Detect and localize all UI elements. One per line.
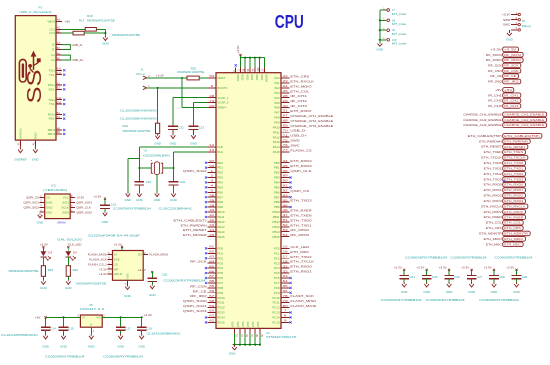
pin U1 VSS/25 bottom bbox=[256, 321, 263, 337]
pin U4 WP/3 net +3.3V bbox=[99, 266, 119, 272]
svg-text:0603WAF1002T5E: 0603WAF1002T5E bbox=[123, 129, 151, 133]
wire +5V to U5 bbox=[46, 316, 81, 318]
svg-text:PB9: PB9 bbox=[274, 205, 280, 209]
svg-text:35: 35 bbox=[283, 164, 289, 168]
svg-text:CC0603KRX7R9BB104: CC0603KRX7R9BB104 bbox=[113, 207, 151, 211]
svg-text:SIO0: SIO0 bbox=[62, 210, 69, 214]
pin U1 PD2/83 no-connect bbox=[205, 254, 224, 260]
svg-text:+3.3V: +3.3V bbox=[506, 266, 514, 270]
mount hole J8 bbox=[380, 18, 407, 27]
svg-text:PA11: PA11 bbox=[273, 130, 280, 134]
pin P1 D+/A6 net USB_D+ bbox=[51, 51, 62, 57]
svg-text:13: 13 bbox=[209, 148, 215, 152]
svg-text:ETH_RXD3: ETH_RXD3 bbox=[504, 199, 523, 203]
junction C15 node bbox=[62, 316, 64, 318]
svg-text:GND: GND bbox=[170, 142, 178, 146]
wire D4 to R16 bbox=[67, 257, 69, 266]
wire C29 to gnd bbox=[516, 279, 518, 283]
svg-text:ETH_PWRDWN: ETH_PWRDWN bbox=[504, 139, 528, 143]
svg-text:ETH_RXD1: ETH_RXD1 bbox=[504, 188, 523, 192]
pin IC2 CS/1 net QSPI_CS bbox=[26, 194, 50, 200]
svg-text:ETH_CRS: ETH_CRS bbox=[486, 226, 502, 230]
svg-text:SHIELD: SHIELD bbox=[19, 129, 23, 139]
svg-text:C18: C18 bbox=[146, 180, 152, 184]
pin U1 PA8/67 net CHARGE_CH1_ENABLE bbox=[274, 114, 333, 120]
svg-text:+3.3V: +3.3V bbox=[394, 266, 402, 270]
pin U1 VSS/49 bottom bbox=[241, 321, 248, 337]
svg-text:VDD: VDD bbox=[260, 74, 264, 80]
svg-text:PC10: PC10 bbox=[272, 296, 280, 300]
junction +3.3V/NRST node bbox=[181, 77, 183, 79]
pin U1 PA13/72 net SWD bbox=[273, 138, 301, 144]
svg-text:IR_CH1: IR_CH1 bbox=[488, 93, 502, 97]
svg-text:R16: R16 bbox=[73, 268, 79, 272]
mount hole J10 bbox=[380, 37, 407, 46]
wire VSS drop bbox=[249, 334, 251, 345]
svg-text:IR_CH3: IR_CH3 bbox=[290, 104, 307, 108]
net flag ETH_CABLES(T5P) bbox=[468, 134, 542, 139]
svg-text:RF_CE: RF_CE bbox=[490, 74, 501, 78]
pin P1 D-/B7 bbox=[52, 46, 62, 52]
pin P1 SHIELD bottom bbox=[17, 129, 22, 146]
ground under C17 bbox=[118, 334, 123, 339]
net flag ETH_COL bbox=[486, 220, 523, 225]
svg-text:(YE6U04D): (YE6U04D) bbox=[43, 188, 67, 192]
svg-text:SIO1: SIO1 bbox=[46, 201, 53, 205]
svg-text:GND: GND bbox=[42, 344, 50, 348]
wire C17 to gnd bbox=[120, 330, 122, 334]
pin U1 PE1/99 no-connect bbox=[205, 164, 223, 170]
svg-text:TX1+: TX1+ bbox=[48, 68, 55, 72]
wire C27 drop bbox=[471, 270, 473, 276]
svg-text:ETH_TXD0: ETH_TXD0 bbox=[504, 161, 523, 165]
svg-text:28: 28 bbox=[209, 203, 215, 207]
svg-text:CHARGE_CH3_ENABLE: CHARGE_CH3_ENABLE bbox=[504, 123, 544, 127]
pin U1 PC1/16 net ETH_MDC bbox=[274, 250, 310, 256]
svg-text:VSS: VSS bbox=[231, 321, 235, 327]
svg-text:GAL-30L2G0: GAL-30L2G0 bbox=[57, 238, 82, 242]
net flag ETH_MDC bbox=[486, 242, 523, 247]
svg-text:76: 76 bbox=[283, 143, 289, 147]
svg-text:VSS: VSS bbox=[251, 321, 255, 327]
pin U4 HOLD/7 net +3.3V bbox=[99, 270, 122, 276]
svg-text:PB4: PB4 bbox=[274, 181, 280, 185]
pin U1 PE3/2 no-connect bbox=[205, 174, 223, 180]
wire D- pair loop bbox=[62, 45, 70, 50]
svg-text:SWD: SWD bbox=[503, 18, 511, 22]
svg-text:GND: GND bbox=[149, 293, 157, 297]
pin U1 PC0/15 net CLK_LED bbox=[274, 245, 310, 251]
svg-text:CL10A205KA6NNNC: CL10A205KA6NNNC bbox=[120, 109, 158, 113]
wire C26 to gnd bbox=[448, 279, 450, 283]
wire R16 to gnd bbox=[67, 276, 69, 280]
svg-text:23: 23 bbox=[283, 79, 289, 83]
wire crystal right lead bbox=[163, 167, 174, 169]
svg-text:+3.3V: +3.3V bbox=[138, 268, 147, 272]
svg-text:RF_IRQ: RF_IRQ bbox=[190, 294, 207, 298]
svg-text:15: 15 bbox=[283, 245, 289, 249]
svg-text:87: 87 bbox=[209, 274, 215, 278]
svg-text:66: 66 bbox=[283, 289, 289, 293]
ground case GND bbox=[126, 193, 131, 197]
svg-text:ETH_RXDV: ETH_RXDV bbox=[484, 210, 502, 214]
svg-text:PC7: PC7 bbox=[274, 281, 280, 285]
junction mount hole rail bbox=[379, 19, 381, 21]
svg-text:70: 70 bbox=[283, 128, 289, 132]
pin U1 PA4/28 net IR_CH1 bbox=[274, 94, 307, 100]
svg-text:PE7: PE7 bbox=[217, 195, 223, 199]
svg-text:QSPI_SIO2: QSPI_SIO2 bbox=[183, 169, 207, 173]
pin U1 NRST/94 bbox=[207, 74, 225, 80]
svg-text:58: 58 bbox=[209, 299, 215, 303]
svg-text:82: 82 bbox=[209, 250, 215, 254]
pin U1 PB4/90 no-connect bbox=[274, 179, 292, 185]
svg-text:SBU2: SBU2 bbox=[48, 132, 56, 136]
svg-text:ETH_TXD1: ETH_TXD1 bbox=[504, 166, 523, 170]
svg-text:83: 83 bbox=[209, 254, 215, 258]
svg-text:38: 38 bbox=[209, 193, 215, 197]
capacitor C16 bbox=[100, 204, 110, 206]
svg-text:86: 86 bbox=[209, 269, 215, 273]
svg-text:PD6: PD6 bbox=[217, 276, 223, 280]
pin U1 PE5/4 no-connect bbox=[205, 184, 223, 190]
svg-text:USB_D+: USB_D+ bbox=[72, 58, 84, 62]
pin U1 VSS/10 bottom bbox=[231, 321, 238, 337]
net flag ETH_TXD1 bbox=[484, 166, 526, 171]
svg-text:STM32F746IGT6: STM32F746IGT6 bbox=[266, 335, 296, 339]
ground under C22 bbox=[171, 193, 176, 197]
pin U1 PE6/5 no-connect bbox=[205, 188, 223, 194]
svg-text:B6: B6 bbox=[57, 56, 61, 60]
svg-text:C26: C26 bbox=[454, 275, 460, 279]
resistor R20 bbox=[187, 76, 199, 80]
svg-text:GNDREF: GNDREF bbox=[14, 157, 27, 161]
svg-text:VSS: VSS bbox=[236, 321, 240, 327]
ground under C15 bbox=[61, 334, 66, 339]
svg-text:PD12: PD12 bbox=[217, 306, 225, 310]
svg-text:B5: B5 bbox=[57, 29, 61, 33]
svg-text:51: 51 bbox=[283, 218, 289, 222]
svg-text:PD11: PD11 bbox=[217, 301, 224, 305]
svg-text:SIO2: SIO2 bbox=[46, 205, 53, 209]
svg-text:PA13: PA13 bbox=[273, 140, 280, 144]
wire VCAP_1 horizontal bbox=[173, 97, 216, 99]
svg-text:CS: CS bbox=[114, 262, 118, 266]
svg-text:ETH_TXCLK: ETH_TXCLK bbox=[481, 156, 502, 160]
wire CC2 to R17 bbox=[62, 32, 73, 34]
no-connect stray x bbox=[503, 180, 505, 182]
pin U1 PC5/33 net ETH_RXD1 bbox=[274, 269, 312, 275]
pin U1 PB15/54 net RF_MOSI bbox=[273, 233, 310, 239]
svg-text:PE8: PE8 bbox=[217, 200, 223, 204]
pin P1 RX1-/B2 no-connect bbox=[49, 86, 66, 92]
wire crystal case stub bbox=[128, 158, 139, 160]
svg-text:ETH_COL: ETH_COL bbox=[504, 221, 521, 225]
capacitor C13 bbox=[189, 125, 199, 127]
ground under C16 bbox=[103, 212, 108, 216]
svg-text:PB6: PB6 bbox=[274, 190, 280, 194]
wire C14 drop bbox=[45, 317, 47, 327]
svg-text:ETH_TXD2: ETH_TXD2 bbox=[290, 255, 312, 259]
svg-text:77: 77 bbox=[283, 148, 289, 152]
svg-text:PA12: PA12 bbox=[273, 135, 280, 139]
svg-text:ETH_MDVER: ETH_MDVER bbox=[183, 233, 208, 237]
svg-text:PB8: PB8 bbox=[274, 200, 280, 204]
svg-text:FLASH_MOSI: FLASH_MOSI bbox=[88, 253, 107, 257]
svg-text:P1: P1 bbox=[39, 6, 43, 10]
svg-text:ETH_TXEN: ETH_TXEN bbox=[504, 150, 523, 154]
junction VSS bus bbox=[259, 344, 261, 346]
svg-text:91: 91 bbox=[283, 184, 289, 188]
svg-text:R17: R17 bbox=[79, 19, 85, 23]
pin U1 PA11/70 net USB_D- bbox=[273, 128, 307, 134]
svg-text:CC2: CC2 bbox=[49, 31, 55, 35]
svg-text:ETH_MDC: ETH_MDC bbox=[290, 250, 310, 254]
svg-text:PE2: PE2 bbox=[217, 171, 223, 175]
svg-text:C13: C13 bbox=[199, 125, 205, 129]
pin U1 PE10/40 no-connect bbox=[205, 208, 225, 214]
svg-text:CHARGE_CH2_ENABLE: CHARGE_CH2_ENABLE bbox=[504, 118, 544, 122]
svg-text:GND: GND bbox=[125, 198, 133, 202]
junction mount hole rail bbox=[379, 39, 381, 41]
wire PH1 down to crystal right bbox=[173, 152, 175, 181]
svg-text:18: 18 bbox=[283, 259, 289, 263]
svg-text:54: 54 bbox=[283, 233, 289, 237]
svg-text:FLASH_MISO: FLASH_MISO bbox=[149, 253, 169, 257]
svg-text:QSPI_CLK: QSPI_CLK bbox=[290, 169, 311, 173]
svg-text:PD9: PD9 bbox=[217, 291, 223, 295]
pin U1 PA9/68 net CHARGE_CH2_ENABLE bbox=[274, 119, 333, 125]
svg-text:PD5: PD5 bbox=[217, 271, 223, 275]
svg-text:PC0: PC0 bbox=[274, 247, 280, 251]
svg-text:CC0603KRX7R9BB104: CC0603KRX7R9BB104 bbox=[103, 355, 143, 359]
svg-text:GND: GND bbox=[65, 286, 73, 290]
pin U1 PD11/58 net QSPI_SIO0 bbox=[183, 299, 225, 305]
svg-text:ETH_TXEN: ETH_TXEN bbox=[290, 213, 311, 217]
pin U1 PD8/55 net RF_CSN bbox=[190, 284, 223, 290]
svg-text:48: 48 bbox=[209, 94, 215, 98]
ground under U4 bbox=[125, 285, 130, 289]
svg-text:GND: GND bbox=[102, 41, 110, 45]
svg-text:USB_C_Receptacle: USB_C_Receptacle bbox=[19, 10, 52, 14]
pin U1 VDD/100 top bbox=[257, 67, 264, 80]
svg-text:C28: C28 bbox=[499, 275, 505, 279]
svg-text:IR_CH2: IR_CH2 bbox=[504, 99, 519, 103]
wire U5 adj down bbox=[90, 327, 92, 334]
capacitor C26 bbox=[444, 275, 454, 277]
svg-text:GND: GND bbox=[117, 344, 125, 348]
svg-text:A: A bbox=[90, 323, 92, 327]
pin U1 PD5/86 no-connect bbox=[205, 269, 224, 275]
svg-text:0603WAF3000T5E: 0603WAF3000T5E bbox=[9, 269, 39, 273]
wire C15 drop bbox=[63, 317, 65, 327]
svg-text:FLASH_MOSI: FLASH_MOSI bbox=[290, 304, 316, 308]
wire VDD rail risers bbox=[240, 58, 242, 68]
pin U1 PD15/62 no-connect bbox=[205, 319, 225, 325]
net flag IR_CH3 bbox=[488, 104, 521, 109]
svg-text:VCAP_1: VCAP_1 bbox=[217, 96, 228, 100]
svg-text:Y2: Y2 bbox=[144, 149, 148, 153]
svg-text:ETH_TXD0: ETH_TXD0 bbox=[290, 218, 312, 222]
pin U1 PC14/8 no-connect bbox=[272, 314, 291, 320]
wire C19 to gnd bbox=[141, 330, 143, 334]
svg-text:GND: GND bbox=[513, 290, 521, 294]
svg-text:A7: A7 bbox=[57, 41, 61, 45]
junction BOOT0 node bbox=[157, 87, 159, 89]
svg-text:VO: VO bbox=[96, 316, 101, 320]
svg-text:PE15: PE15 bbox=[217, 235, 224, 239]
svg-text:TX2-: TX2- bbox=[49, 102, 55, 106]
svg-text:GND: GND bbox=[170, 198, 178, 202]
svg-text:29: 29 bbox=[283, 99, 289, 103]
pin P1 GND bottom bbox=[32, 133, 37, 146]
svg-text:72: 72 bbox=[283, 138, 289, 142]
svg-text:ETH_MDIO: ETH_MDIO bbox=[484, 237, 503, 241]
wire C24 to gnd bbox=[403, 279, 405, 283]
svg-text:IR_CH1: IR_CH1 bbox=[504, 93, 519, 97]
capacitor C21 bbox=[168, 125, 178, 127]
pin U1 PD3/84 net RF_SCK bbox=[190, 259, 223, 265]
svg-text:VDD: VDD bbox=[241, 74, 245, 80]
pin U1 PB6/92 net QSPI_CS bbox=[274, 188, 309, 194]
wire C24 drop bbox=[403, 270, 405, 276]
svg-text:PB10: PB10 bbox=[273, 210, 280, 214]
svg-text:67: 67 bbox=[283, 114, 289, 118]
svg-text:GND: GND bbox=[40, 286, 48, 290]
svg-text:+3.3V: +3.3V bbox=[99, 267, 107, 271]
svg-text:PC13: PC13 bbox=[272, 311, 280, 315]
svg-text:ETH_PWRDWN: ETH_PWRDWN bbox=[479, 139, 502, 143]
svg-text:PE0: PE0 bbox=[217, 161, 223, 165]
svg-text:D-: D- bbox=[52, 48, 55, 52]
svg-text:PD2: PD2 bbox=[217, 256, 223, 260]
wire C14 to gnd bbox=[45, 330, 47, 334]
pin U1 PE8/39 no-connect bbox=[205, 198, 223, 204]
svg-text:TX2+: TX2+ bbox=[48, 98, 55, 102]
supply +3.3V at C26 bbox=[439, 266, 451, 271]
svg-text:GND: GND bbox=[154, 198, 162, 202]
pin U1 VSS/27 bottom bbox=[236, 321, 243, 337]
svg-text:25: 25 bbox=[283, 89, 289, 93]
wire C26 drop bbox=[448, 270, 450, 276]
svg-text:NRST: NRST bbox=[217, 76, 225, 80]
svg-text:CC0603KRX7R9BB104: CC0603KRX7R9BB104 bbox=[494, 255, 532, 259]
svg-text:ETH_TXD2: ETH_TXD2 bbox=[504, 172, 523, 176]
pin U1 PC9/66 no-connect bbox=[274, 289, 292, 295]
wire C18 to gnd bbox=[138, 185, 140, 193]
svg-text:PA6: PA6 bbox=[274, 106, 280, 110]
pin U1 VBAT/6 top bbox=[233, 67, 240, 81]
svg-text:PC5: PC5 bbox=[274, 271, 280, 275]
svg-text:KM1117-3.3: KM1117-3.3 bbox=[80, 307, 104, 311]
led D3 bbox=[41, 246, 51, 260]
pin U1 PC3/18 net ETH_TXCLK bbox=[274, 259, 314, 265]
pin P1 SBU2/B8 no-connect bbox=[48, 130, 66, 136]
pin U1 PB2/36 net QSPI_CLK bbox=[274, 169, 311, 175]
svg-text:GND: GND bbox=[32, 157, 40, 161]
mount hole J7 bbox=[380, 7, 407, 16]
svg-text:SWD: SWD bbox=[290, 139, 300, 143]
svg-text:SO: SO bbox=[138, 253, 143, 257]
pin U1 VDD/50 top bbox=[247, 67, 254, 80]
svg-text:QSPI_SIO1: QSPI_SIO1 bbox=[183, 304, 207, 308]
svg-text:A4: A4 bbox=[57, 18, 61, 22]
svg-text:PE13: PE13 bbox=[217, 225, 224, 229]
svg-text:ETH_MDIO: ETH_MDIO bbox=[504, 237, 524, 241]
pin U1 PB8/95 net ETH_TXD3 bbox=[274, 198, 312, 204]
svg-text:GND: GND bbox=[60, 344, 68, 348]
pin U1 PB7/93 no-connect bbox=[274, 193, 292, 199]
svg-text:ETH_RXD2: ETH_RXD2 bbox=[504, 194, 523, 198]
pin U1 PB14/53 net RF_MISO bbox=[273, 228, 311, 234]
ground under C18 bbox=[137, 193, 142, 197]
svg-text:PB7: PB7 bbox=[274, 195, 280, 199]
svg-text:ETH_CABLES(T5P): ETH_CABLES(T5P) bbox=[468, 134, 502, 138]
wire case down bbox=[127, 159, 129, 193]
resistor R16 bbox=[66, 266, 70, 277]
svg-text:PD1: PD1 bbox=[217, 251, 223, 255]
wire C29 drop bbox=[516, 270, 518, 276]
svg-text:USB_D-: USB_D- bbox=[290, 129, 306, 133]
svg-text:0603WAF5102T5E: 0603WAF5102T5E bbox=[112, 33, 140, 37]
capacitor C18 bbox=[135, 181, 145, 183]
svg-text:+3.3V: +3.3V bbox=[490, 47, 501, 51]
pin U1 PC8/65 no-connect bbox=[274, 284, 292, 290]
wire C22 to gnd bbox=[173, 185, 175, 193]
no-connect VBAT bbox=[235, 64, 237, 66]
svg-text:ETH_RXER: ETH_RXER bbox=[484, 215, 502, 219]
svg-text:+5V: +5V bbox=[495, 88, 502, 92]
svg-text:RF_MISO: RF_MISO bbox=[486, 58, 503, 62]
pin U1 PB9/96 no-connect bbox=[274, 203, 292, 209]
svg-text:55: 55 bbox=[209, 284, 215, 288]
svg-text:SIO3: SIO3 bbox=[62, 201, 69, 205]
ground chip GND bbox=[232, 345, 237, 350]
pin P1 D-/A7 net USB_D- bbox=[52, 41, 62, 47]
supply +3.3V at C29 bbox=[506, 266, 517, 271]
svg-text:+3.3V: +3.3V bbox=[156, 73, 165, 77]
svg-text:89: 89 bbox=[283, 174, 289, 178]
svg-text:GND: GND bbox=[506, 38, 514, 42]
pin U1 PE13/43 net ETH_PWRDWN bbox=[181, 223, 225, 229]
ground under C24 bbox=[402, 282, 407, 287]
svg-text:PD13: PD13 bbox=[217, 311, 225, 315]
ground under C25 bbox=[424, 282, 429, 287]
crystal Y2 bbox=[151, 160, 162, 175]
svg-text:GND: GND bbox=[34, 133, 38, 139]
net flag ETH_RESET bbox=[481, 144, 527, 149]
svg-text:GND: GND bbox=[124, 294, 132, 298]
pin P1 D+/B6 bbox=[51, 56, 62, 62]
net flag ETH_RXCLK bbox=[481, 204, 527, 209]
pin U1 PB0/34 net ETH_RXD2 bbox=[274, 159, 312, 165]
svg-text:QSPI_CS: QSPI_CS bbox=[290, 189, 309, 193]
pin U4 SI/5 net FLASH_MOSI bbox=[88, 251, 117, 257]
svg-text:40: 40 bbox=[209, 208, 215, 212]
svg-text:SI: SI bbox=[114, 253, 117, 257]
svg-text:USB_D-: USB_D- bbox=[72, 43, 83, 47]
svg-text:D+: D+ bbox=[51, 58, 55, 62]
ground under C20 bbox=[150, 285, 155, 289]
svg-text:ETH_RXDV: ETH_RXDV bbox=[504, 210, 523, 214]
svg-text:FU1-2: FU1-2 bbox=[136, 72, 145, 76]
svg-text:PA14: PA14 bbox=[273, 145, 280, 149]
capacitor C27 bbox=[467, 275, 477, 277]
capacitor C28 bbox=[489, 275, 499, 277]
svg-text:+3.3V: +3.3V bbox=[93, 195, 102, 199]
svg-text:QSPI_SIO3: QSPI_SIO3 bbox=[183, 309, 207, 313]
wire D3 to R15 bbox=[42, 257, 44, 266]
